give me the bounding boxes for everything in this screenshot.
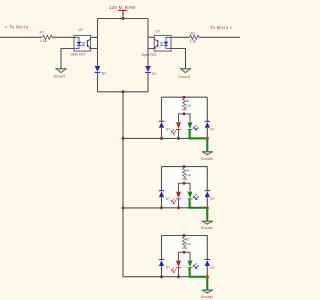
ground (left opto)	[54, 69, 67, 79]
svg-text:Opto FET: Opto FET	[71, 52, 87, 56]
junction resistor bottom	[183, 112, 186, 115]
wire bus vertical	[123, 92, 162, 277]
svg-text:Q?: Q?	[195, 127, 199, 131]
U2 LED anode lead	[166, 37, 171, 41]
junction ground node	[206, 137, 209, 140]
opto-FET U2 (right)	[142, 29, 172, 56]
wire opto U2 to resistor R2	[171, 36, 190, 38]
svg-text:1.0k: 1.0k	[182, 108, 188, 112]
diode D3 (block left clamp)	[159, 120, 164, 122]
wire D2 to bus	[147, 72, 149, 91]
wire D1 to bus	[97, 72, 99, 91]
U1 FET drain/source leads	[87, 37, 90, 48]
U1 LED cathode lead	[74, 46, 79, 49]
wire block top	[162, 96, 208, 98]
resistor R2 (right input)	[190, 32, 200, 43]
svg-text:U?: U?	[79, 28, 84, 32]
resistor R3 (block)	[183, 97, 186, 110]
wire feed block 2	[123, 207, 162, 209]
U2 light arrows	[161, 42, 163, 43]
Q1 incident light arrows	[193, 125, 196, 129]
ground (right opto)	[178, 69, 191, 79]
junction D5 cathode	[177, 137, 180, 140]
U1 internal LED	[77, 42, 81, 45]
wire feed block 1	[123, 137, 162, 139]
U2 FET drain/source leads	[154, 37, 158, 48]
resistor R1 (left input)	[40, 31, 53, 44]
U1 internal FET bar	[86, 40, 88, 47]
junction bus to block 2	[122, 206, 125, 209]
wire U1 right pins to drop	[91, 37, 98, 48]
wire block left	[161, 97, 163, 121]
sensor block 1	[159, 96, 215, 161]
wire branch split	[179, 114, 191, 122]
power port bar symbol	[118, 10, 126, 18]
U1 light arrows	[82, 42, 84, 43]
wire left input	[0, 36, 42, 38]
junction bus to block 1	[122, 137, 125, 140]
D5 emission arrows	[173, 131, 176, 135]
junction bus top	[122, 90, 125, 93]
wire U2 left pins to drop	[148, 37, 154, 48]
svg-text:D?: D?	[152, 72, 156, 76]
svg-text:Opto FET: Opto FET	[142, 53, 158, 57]
wire D3 to bottom	[161, 128, 163, 139]
wire block bottom	[162, 137, 191, 139]
svg-text:1.1k: 1.1k	[190, 39, 197, 43]
LED D5 (IR emitter, red)	[176, 122, 181, 129]
opto-FET U1 (left)	[71, 28, 91, 56]
sensor block 2 (R?, clamp diodes D?, LED D?, phototransistor Q?, ground)	[159, 165, 215, 230]
wire Q1 emitter to ground (selected, green)	[190, 129, 208, 151]
wire U1 cathode to ground	[61, 49, 74, 69]
svg-text:D?: D?	[210, 128, 214, 132]
svg-text:1.1k: 1.1k	[40, 39, 47, 43]
wire bus top	[98, 91, 149, 93]
U1 LED anode lead	[74, 37, 79, 41]
junction block top center	[183, 96, 186, 99]
diode D1 (left chain)	[95, 66, 107, 76]
diode D2 (right chain)	[145, 66, 156, 76]
U2 internal LED	[164, 42, 168, 45]
wire rail left drop	[97, 19, 99, 66]
svg-text:U?: U?	[156, 29, 161, 33]
svg-text:12V M_RAW: 12V M_RAW	[109, 5, 135, 10]
wire block right	[206, 97, 208, 121]
svg-text:D?: D?	[102, 72, 106, 76]
U1 body	[74, 35, 91, 51]
wire D4 to ground node	[206, 128, 208, 139]
svg-text:R?: R?	[40, 31, 45, 35]
ground (block)	[202, 151, 213, 153]
wire right input	[199, 36, 240, 38]
U2 body	[154, 35, 171, 51]
wire D5 cathode	[178, 129, 180, 138]
U2 internal FET bar	[157, 40, 159, 47]
junction block bottom-left	[160, 137, 163, 140]
U2 LED cathode lead	[166, 46, 171, 49]
svg-text:D?: D?	[166, 127, 170, 131]
transistor Q1 (photo receiver, green)	[188, 122, 193, 129]
wire resistor to opto U1	[52, 36, 74, 38]
block fill	[162, 97, 208, 138]
sensor block 3 (R?, clamp diodes D?, LED D?, phototransistor Q?, ground)	[159, 234, 215, 299]
diode D4 (block right clamp)	[205, 120, 210, 122]
wire 12V rail	[98, 18, 149, 20]
wire U2 cathode to ground	[171, 49, 186, 69]
svg-text:« To Micro: « To Micro	[5, 25, 29, 30]
junction at power rail	[122, 17, 125, 20]
wire rail right drop	[147, 19, 149, 66]
svg-text:Ground: Ground	[201, 157, 213, 161]
svg-text:Ground: Ground	[54, 74, 66, 78]
svg-text:Ground: Ground	[178, 75, 190, 79]
svg-text:To Micro »: To Micro »	[210, 25, 233, 30]
